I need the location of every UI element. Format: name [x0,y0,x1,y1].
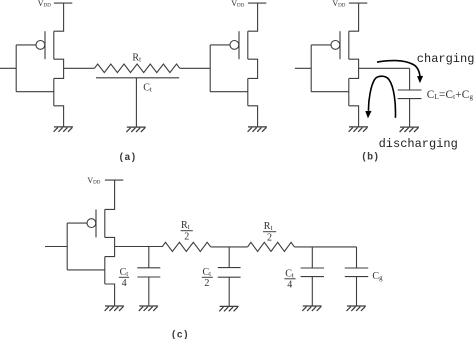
wire VDD to inverter U1 PMOS source [54,3,64,31]
capacitor CL [398,90,422,99]
svg-text:2: 2 [184,231,189,242]
wire inverter U3 NMOS gate [311,91,349,93]
svg-text:CL=Ct+Cg: CL=Ct+Cg [427,89,474,101]
wire input to inverter U4 PMOS gate [67,222,87,224]
inverter U1 NMOS channel [53,78,55,105]
svg-text:(a): (a) [118,152,136,164]
ground under C2 [219,306,238,311]
wire input of first inverter [0,67,16,69]
svg-text:VDD: VDD [332,0,345,8]
wire inverter U3 input vertical [310,45,312,92]
ground under inverter U4 [105,306,124,311]
svg-text:Ct: Ct [143,82,152,93]
inverter U2 PMOS gate bar [238,31,240,59]
wire Cg to ground [356,277,358,306]
wire Cg stem [356,247,358,268]
svg-text:VDD: VDD [87,176,100,186]
svg-text:Rt: Rt [181,220,190,231]
inverter U2 PMOS gate bubble [230,41,239,50]
inverter U4 PMOS gate bar [95,209,97,237]
wire C3 stem [311,247,313,268]
wire C2 to ground [228,277,230,306]
wire input of inverter U3 [295,67,311,69]
svg-text:Rt: Rt [264,221,273,232]
ground under Cg [347,306,366,311]
svg-text:Ct: Ct [285,268,294,279]
inverter U2 NMOS channel [247,78,249,105]
ground under inverter U1 [54,127,73,132]
wire inverter U1 input vertical [15,45,17,92]
inverter U3 PMOS gate bubble [331,41,340,50]
resistor R1 (Rt/2) [162,242,211,251]
wire inverter U3 NMOS source to ground [349,106,359,127]
wire input to inverter U3 PMOS gate [311,44,331,46]
wire U4 output to first resistor [115,246,162,248]
wire VDD to inverter U2 PMOS source [248,3,258,31]
wire U1 output to resistor [64,67,95,69]
wire inverter U1 PMOS drain to NMOS drain (output node) [54,59,64,78]
inverter U4 PMOS gate bubble [87,219,96,228]
resistor R2 (Rt/2) [248,242,295,251]
inverter U3 PMOS channel [348,31,350,59]
svg-text:VDD: VDD [38,0,51,8]
svg-text:(b): (b) [361,152,379,164]
wire inverter U3 PMOS drain to NMOS drain (output node) [349,59,359,78]
wire Ct plate to ground [135,78,137,127]
svg-text:Ct: Ct [203,267,212,278]
discharging current arrow [366,76,396,118]
inverter U1 VDD rail [54,2,72,4]
wire inverter U4 NMOS gate [67,269,105,271]
svg-text:2: 2 [204,278,209,289]
wire C1 to ground [148,277,150,306]
capacitor C1 (Ct/4) [137,268,160,277]
wire inverter U1 NMOS gate [16,91,54,93]
wire C3 to ground [311,277,313,306]
inverter U3 PMOS gate bar [339,31,341,59]
wire U3 output to capacitor CL [359,67,410,69]
wire inverter U1 NMOS source to ground [54,106,64,127]
svg-text:charging: charging [417,52,474,66]
ground under C3 [302,306,321,311]
ground under inverter U2 [248,127,267,132]
ground under Ct [126,127,145,132]
ground under C1 [139,306,158,311]
svg-text:4: 4 [287,279,292,290]
wire VDD to inverter U3 PMOS source [349,3,359,31]
svg-text:VDD: VDD [231,0,244,8]
wire inverter U4 input vertical [66,223,68,270]
wire output down to CL top plate [409,68,411,90]
wire inverter U4 NMOS source to ground [105,284,115,306]
svg-text:Ct: Ct [120,267,129,278]
inverter U3 NMOS channel [348,78,350,105]
inverter U2 VDD rail [248,2,266,4]
wire R2 to Cg [294,246,356,248]
ground under CL [400,127,419,132]
wire CL bottom plate to ground [409,99,411,127]
svg-text:discharging: discharging [379,137,458,151]
wire inverter U4 PMOS drain to NMOS drain (output node) [105,237,115,256]
wire input to inverter U2 PMOS gate [210,44,230,46]
wire inverter U2 PMOS drain to NMOS drain (output node) [248,59,258,78]
wire R1 to R2 [211,246,248,248]
wire C2 stem [228,247,230,268]
capacitor C3 (Ct/4) [301,268,324,277]
inverter U1 PMOS channel [53,31,55,59]
inverter U4 PMOS channel [104,209,106,237]
inverter U2 PMOS channel [247,31,249,59]
inverter U1 PMOS gate bubble [36,41,45,50]
svg-text:2: 2 [267,232,272,243]
wire input of inverter U4 [45,246,67,248]
wire input to inverter U1 PMOS gate [16,44,36,46]
wire inverter U2 NMOS gate [210,91,248,93]
inverter U3 VDD rail [349,2,367,4]
charging current arrow [377,61,423,83]
svg-text:4: 4 [122,278,127,289]
wire inverter U2 NMOS source to ground [248,106,258,127]
wire C1 stem [148,247,150,268]
wire inverter U2 input vertical [209,45,211,92]
capacitor Cg [345,268,368,277]
wire resistor to second inverter input [180,67,210,69]
ground under inverter U3 [349,127,368,132]
wire VDD to inverter U4 PMOS source [105,180,115,209]
capacitor C2 (Ct/2) [218,268,241,278]
distributed capacitance plate line [96,77,179,79]
resistor Rt [94,64,179,73]
inverter U1 PMOS gate bar [44,31,46,59]
inverter U4 VDD rail [105,179,123,181]
svg-text:(c): (c) [171,329,189,339]
svg-text:Rt: Rt [132,52,141,63]
svg-text:Cg: Cg [372,271,383,282]
inverter U4 NMOS channel [104,257,106,284]
